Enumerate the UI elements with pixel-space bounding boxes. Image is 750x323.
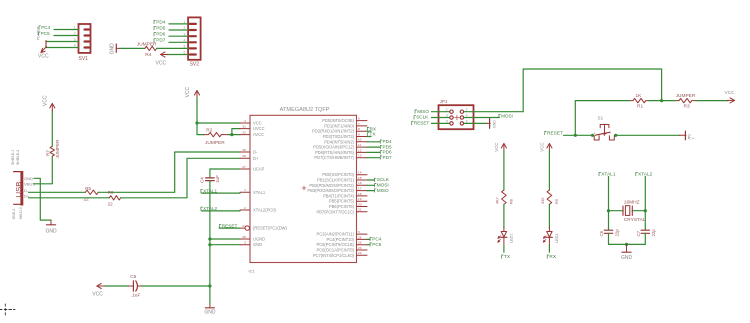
svg-text:30: 30 — [242, 148, 246, 152]
svg-text:PD5: PD5 — [383, 144, 393, 149]
net XTAL2 label top — [636, 172, 653, 178]
svg-text:1: 1 — [244, 188, 246, 192]
ground symbol bottom — [204, 304, 216, 316]
supply VCC at SV2 — [156, 52, 169, 67]
wire GND to R4 — [120, 47, 145, 49]
ground symbol at JP1 — [487, 119, 497, 129]
svg-text:R4: R4 — [145, 52, 151, 58]
svg-text:2: 2 — [244, 206, 246, 210]
label SV2 — [190, 61, 200, 67]
svg-text:25: 25 — [358, 241, 362, 245]
svg-text:PD7: PD7 — [383, 155, 393, 160]
svg-text:10: 10 — [358, 138, 362, 142]
svg-text:GND: GND — [110, 43, 116, 55]
pushbutton S1 — [591, 116, 617, 141]
resistor R7 — [46, 139, 61, 159]
svg-text:PC5: PC5 — [372, 242, 382, 247]
resistor R3 jumper — [676, 93, 696, 109]
wire IC GND — [208, 243, 240, 246]
svg-text:PD2(RXD1/AIN1/INT2): PD2(RXD1/AIN1/INT2) — [312, 129, 354, 134]
svg-text:JUMPER: JUMPER — [137, 41, 157, 47]
pin name D+ — [24, 194, 30, 199]
connector X1 USB jack body — [14, 171, 24, 206]
net MISO to JP1 — [415, 109, 450, 114]
wire JP1 pin2 to R1 junction — [464, 69, 662, 112]
svg-text:TX: TX — [504, 254, 511, 260]
JP1 pin numbers — [446, 108, 468, 124]
svg-text:VCC: VCC — [253, 121, 262, 126]
wire crystal gnd rail — [609, 243, 646, 246]
svg-text:22p: 22p — [651, 229, 656, 237]
connector JP1 body — [439, 105, 474, 129]
svg-text:JUMPER: JUMPER — [676, 93, 696, 99]
wire USB D- to R5 — [29, 191, 86, 193]
svg-text:8: 8 — [358, 127, 360, 131]
svg-text:R9: R9 — [555, 199, 559, 204]
svg-text:LED1: LED1 — [510, 234, 514, 244]
connector SV2 body — [188, 17, 201, 59]
svg-text:12: 12 — [358, 148, 362, 152]
wire IC UGND — [208, 237, 240, 240]
svg-text:PD6: PD6 — [383, 150, 393, 155]
svg-text:SV1: SV1 — [79, 56, 89, 62]
svg-text:VCC: VCC — [494, 142, 499, 151]
svg-text:D+: D+ — [253, 156, 259, 161]
svg-text:PC7(INT4/ICP1/CLK0): PC7(INT4/ICP1/CLK0) — [313, 253, 355, 258]
wire JP1 pin6 to ground — [464, 122, 487, 124]
wire R6 to IC D+ — [121, 158, 240, 198]
svg-text:PD4(INT5/AIN2): PD4(INT5/AIN2) — [324, 139, 354, 144]
svg-text:VCC: VCC — [38, 54, 49, 60]
svg-text:PB2(PDI/MOSI/PCINT2): PB2(PDI/MOSI/PCINT2) — [309, 183, 354, 188]
svg-text:(RESET)PC1(DW): (RESET)PC1(DW) — [253, 226, 288, 231]
wire R1 to junction — [648, 99, 663, 102]
svg-text:PD7(CTS/HWB/INT7): PD7(CTS/HWB/INT7) — [314, 155, 354, 160]
nets SCLK MOSI MISO — [367, 177, 390, 193]
wire S1 to pin header — [616, 134, 679, 136]
svg-text:19: 19 — [358, 197, 362, 201]
svg-text:16: 16 — [358, 181, 362, 185]
wire crystal right — [632, 210, 645, 212]
svg-text:27: 27 — [242, 165, 246, 169]
net MOSI from JP1 pin4 — [464, 113, 513, 118]
ground symbol crystal — [621, 244, 633, 261]
svg-text:RESET: RESET — [414, 121, 430, 126]
resistor R2 jumper — [204, 128, 228, 146]
svg-text:C5: C5 — [130, 274, 136, 280]
pin name D- — [24, 188, 29, 193]
wire bottom rail right — [141, 284, 212, 287]
svg-text:15: 15 — [358, 176, 362, 180]
svg-text:PC6(OC1A/PCINT8): PC6(OC1A/PCINT8) — [316, 248, 354, 253]
ground symbol below USB — [45, 220, 57, 234]
wire USB D+ to R6 — [29, 197, 110, 199]
svg-text:R5: R5 — [85, 186, 91, 191]
svg-text:XTAL1: XTAL1 — [203, 188, 217, 193]
svg-text:16MHZ: 16MHZ — [624, 200, 640, 206]
wire SV1 pin3 — [46, 41, 79, 43]
svg-text:.1uF: .1uF — [131, 292, 141, 298]
svg-text:22p: 22p — [614, 229, 619, 237]
svg-text:S1: S1 — [598, 116, 604, 121]
net RESET to pin24 — [219, 223, 240, 228]
svg-text:PC5(PCINT9/OC1B): PC5(PCINT9/OC1B) — [316, 242, 354, 247]
svg-text:RX: RX — [370, 126, 377, 131]
IC right pins — [307, 117, 367, 258]
SV1 pin numbers — [74, 26, 76, 48]
wire C7 down — [644, 233, 646, 244]
wire SV2 pin6 to VCC — [167, 54, 188, 56]
svg-text:RX: RX — [549, 254, 556, 260]
svg-text:4: 4 — [244, 119, 246, 123]
connector SV1 body — [79, 24, 91, 53]
svg-text:GND: GND — [621, 255, 633, 261]
svg-text:9: 9 — [358, 132, 360, 136]
svg-text:PC4: PC4 — [372, 237, 382, 242]
svg-text:UCAP: UCAP — [253, 167, 265, 172]
wire USB GND to ground — [34, 178, 51, 220]
wire C6 down — [608, 233, 610, 244]
svg-text:RESET: RESET — [222, 223, 238, 228]
svg-text:R7: R7 — [46, 150, 51, 156]
op-amp IC1 ATMEGA8U2 body — [250, 115, 357, 262]
svg-text:JP1: JP1 — [440, 99, 448, 104]
svg-text:SHIELD-1: SHIELD-1 — [11, 150, 15, 165]
svg-text:PB0(SS/PCINT0): PB0(SS/PCINT0) — [322, 172, 354, 177]
svg-text:PB3(PDO/MISO/PCINT3): PB3(PDO/MISO/PCINT3) — [307, 188, 354, 193]
label IC1 name — [249, 269, 256, 274]
nets PC4 PC5 — [367, 237, 382, 247]
ic origin cross — [302, 186, 306, 190]
wire IC UCAP left — [210, 169, 240, 177]
supply VCC above R7 — [43, 95, 55, 111]
capacitor C7 — [636, 229, 656, 237]
net SCLK to JP1 — [414, 115, 450, 120]
svg-text:GND: GND — [493, 120, 497, 128]
crystal Q1 16MHZ — [623, 200, 646, 223]
svg-text:GND: GND — [24, 176, 33, 181]
svg-text:SCLK: SCLK — [416, 115, 429, 120]
svg-text:330: 330 — [541, 198, 545, 204]
supply VCC above IC — [185, 86, 200, 98]
svg-text:D-: D- — [253, 150, 258, 155]
svg-text:XTAL1: XTAL1 — [253, 190, 266, 195]
label ATMEGA8U2 value — [280, 107, 330, 113]
svg-text:MISO: MISO — [377, 188, 389, 193]
svg-text:RESET: RESET — [547, 130, 563, 136]
svg-text:7: 7 — [358, 122, 360, 126]
svg-text:PD6: PD6 — [156, 32, 166, 37]
svg-text:UGND: UGND — [253, 237, 265, 242]
supply VCC at SV1 — [38, 41, 49, 60]
JP1 pin circles — [450, 110, 464, 125]
svg-text:1uF: 1uF — [215, 175, 220, 183]
net XTAL1 label top — [599, 172, 616, 178]
wire XTAL1 down — [607, 177, 610, 230]
supply VCC right — [725, 90, 736, 103]
supply VCC bottom left — [92, 283, 104, 297]
wire crystal left — [609, 210, 624, 212]
SV2 pin numbers — [184, 20, 186, 55]
wire SV1 pin4 — [46, 47, 79, 49]
svg-text:VCC: VCC — [92, 292, 103, 298]
svg-text:XTAL2: XTAL2 — [203, 206, 217, 211]
svg-text:LED2: LED2 — [555, 234, 559, 244]
IC RESET pin bubble — [245, 226, 249, 230]
svg-text:C7: C7 — [636, 230, 641, 236]
svg-text:PD3(TXD1/INT3): PD3(TXD1/INT3) — [323, 134, 355, 139]
pin header JP2 — [679, 131, 695, 140]
svg-text:VCC: VCC — [540, 142, 545, 151]
svg-text:VCC: VCC — [43, 95, 49, 106]
capacitor C4 on UCAP — [200, 175, 220, 183]
svg-text:17: 17 — [358, 187, 362, 191]
IC left pins — [240, 119, 288, 247]
svg-text:PB5(PCINT5): PB5(PCINT5) — [329, 199, 355, 204]
label USB — [14, 182, 23, 198]
wire R5 to IC D- — [98, 152, 240, 192]
svg-text:PB6(PCINT6): PB6(PCINT6) — [329, 204, 355, 209]
svg-text:JUMPER: JUMPER — [55, 139, 60, 159]
svg-text:MISO: MISO — [417, 109, 429, 114]
svg-text:13: 13 — [358, 154, 362, 158]
svg-text:PD7: PD7 — [156, 38, 166, 43]
pin name VBUS — [24, 181, 35, 186]
wire XTAL2 down — [644, 177, 647, 230]
wire R7 to VCC — [51, 111, 53, 147]
svg-text:AVCC: AVCC — [253, 132, 264, 137]
svg-text:SHLD-3: SHLD-3 — [19, 207, 23, 219]
capacitor C6 — [599, 229, 619, 237]
svg-text:1K: 1K — [636, 93, 643, 99]
svg-text:28: 28 — [242, 235, 246, 239]
svg-text:3: 3 — [244, 241, 246, 245]
svg-text:11: 11 — [358, 143, 361, 147]
wire R1 left to RESET — [575, 101, 629, 136]
svg-text:29: 29 — [242, 154, 246, 158]
svg-text:R6: R6 — [108, 190, 114, 195]
ground symbol left of R4 — [110, 43, 120, 55]
net XTAL2 to pin2 — [201, 206, 240, 211]
svg-text:ATMEGA8U2 TQFP: ATMEGA8U2 TQFP — [280, 107, 330, 113]
SV1 rotated label — [37, 26, 41, 40]
svg-text:CRYSTAL: CRYSTAL — [624, 217, 646, 223]
svg-text:PD6(RTS/AIN4/INT6): PD6(RTS/AIN4/INT6) — [315, 150, 355, 155]
svg-text:20: 20 — [358, 202, 362, 206]
svg-text:GND-2: GND-2 — [12, 209, 16, 220]
svg-text:GND: GND — [204, 310, 216, 316]
svg-text:R2: R2 — [206, 128, 212, 134]
svg-text:26: 26 — [358, 235, 362, 239]
svg-text:MOSI: MOSI — [501, 113, 513, 118]
resistor R4 jumper — [137, 41, 157, 58]
svg-text:5: 5 — [358, 230, 360, 234]
net RESET label — [545, 130, 593, 137]
svg-text:GND: GND — [253, 242, 262, 247]
svg-text:VCC: VCC — [185, 86, 191, 97]
svg-text:XTAL2(PC0): XTAL2(PC0) — [253, 208, 277, 213]
wire C4 down to ground rail — [209, 181, 211, 286]
svg-text:PC4(PCINT10): PC4(PCINT10) — [326, 237, 354, 242]
text shield names bottom — [12, 207, 23, 219]
svg-text:GND: GND — [45, 228, 57, 234]
wire USB VBUS up to R7 — [34, 157, 53, 184]
wire R2 to UVCC pin31 — [232, 129, 240, 135]
svg-text:R3: R3 — [684, 103, 690, 109]
LED chain RX (R9 LED2) — [540, 142, 559, 260]
wire PC4 to SV1 pin1 — [39, 25, 79, 30]
svg-text:SV2: SV2 — [190, 61, 200, 67]
svg-text:C4: C4 — [200, 177, 205, 183]
svg-text:PC4: PC4 — [41, 25, 50, 30]
svg-text:PD0(INT0/OC0B): PD0(INT0/OC0B) — [322, 118, 354, 123]
label SV1 — [79, 56, 89, 62]
wire junction to GND — [209, 286, 211, 304]
wire R2 to AVCC pin32 — [228, 133, 240, 136]
resistor R6 22 — [108, 190, 121, 206]
svg-text:PC5: PC5 — [41, 31, 50, 36]
wire VCC to IC pin4 — [197, 122, 240, 124]
pin name GND — [24, 176, 33, 181]
label JP1 — [440, 99, 448, 104]
svg-text:USB: USB — [14, 182, 23, 198]
wires PD4-PD7 to SV2 — [154, 19, 188, 42]
wire down to R2 — [197, 123, 204, 135]
wire R3 to VCC — [696, 100, 728, 102]
capacitor C5 .1uF — [128, 274, 141, 298]
svg-text:C6: C6 — [599, 230, 604, 236]
svg-text:14: 14 — [358, 171, 362, 175]
wire PC5 to SV1 pin2 — [39, 31, 79, 36]
svg-text:IC1: IC1 — [249, 269, 256, 274]
svg-text:R1: R1 — [637, 103, 643, 109]
wire bottom rail left — [104, 285, 128, 287]
resistor R1 1K — [630, 93, 649, 109]
svg-text:PD5: PD5 — [156, 25, 166, 30]
svg-text:4K7: 4K7 — [496, 197, 500, 204]
origin cross mark — [0, 304, 15, 315]
svg-text:22: 22 — [358, 251, 362, 255]
wire R4 to SV2 pin5 — [157, 47, 189, 49]
wire junction to R3 — [662, 100, 676, 102]
svg-text:VCC: VCC — [725, 90, 736, 96]
svg-text:PD1(INT1/AIN0): PD1(INT1/AIN0) — [324, 123, 354, 128]
net RESET to JP1 — [412, 121, 450, 126]
wire VCC down — [195, 98, 198, 125]
text shield names top — [11, 150, 20, 165]
svg-text:PD4: PD4 — [383, 139, 393, 144]
nets RX TX PD4-PD7 — [367, 126, 392, 160]
svg-text:R8: R8 — [509, 199, 513, 204]
svg-text:23: 23 — [358, 246, 362, 250]
svg-text:22: 22 — [108, 202, 114, 207]
svg-text:TX: TX — [370, 132, 377, 137]
svg-text:21: 21 — [358, 208, 362, 212]
svg-text:PD4: PD4 — [156, 19, 166, 24]
svg-text:6: 6 — [358, 117, 360, 121]
svg-text:SCLK: SCLK — [377, 177, 390, 182]
svg-text:PB1(SCLK/PCINT1): PB1(SCLK/PCINT1) — [317, 178, 354, 183]
svg-text:MOSI: MOSI — [377, 183, 389, 188]
svg-text:18: 18 — [358, 192, 362, 196]
svg-text:VCC: VCC — [156, 60, 167, 66]
svg-text:PC2(AIN2/PCINT11): PC2(AIN2/PCINT11) — [317, 232, 355, 237]
svg-text:UVCC: UVCC — [253, 126, 265, 131]
net XTAL1 to pin1 — [201, 188, 240, 193]
svg-text:PC4/PC5: PC4/PC5 — [37, 26, 41, 40]
svg-text:PB4(T1/PCINT4): PB4(T1/PCINT4) — [323, 193, 355, 198]
svg-text:JUMPER: JUMPER — [205, 140, 225, 146]
svg-text:PB7(PCINT7/OC1C): PB7(PCINT7/OC1C) — [316, 209, 354, 214]
svg-text:PD5(XCK/AIN3/PC12): PD5(XCK/AIN3/PC12) — [313, 145, 354, 150]
resistor R5 22 — [84, 186, 99, 201]
svg-text:SHIELD-2: SHIELD-2 — [16, 150, 20, 165]
svg-text:32: 32 — [242, 131, 246, 135]
LED chain TX (R8 LED1) — [494, 142, 513, 260]
svg-text:31: 31 — [242, 125, 246, 129]
